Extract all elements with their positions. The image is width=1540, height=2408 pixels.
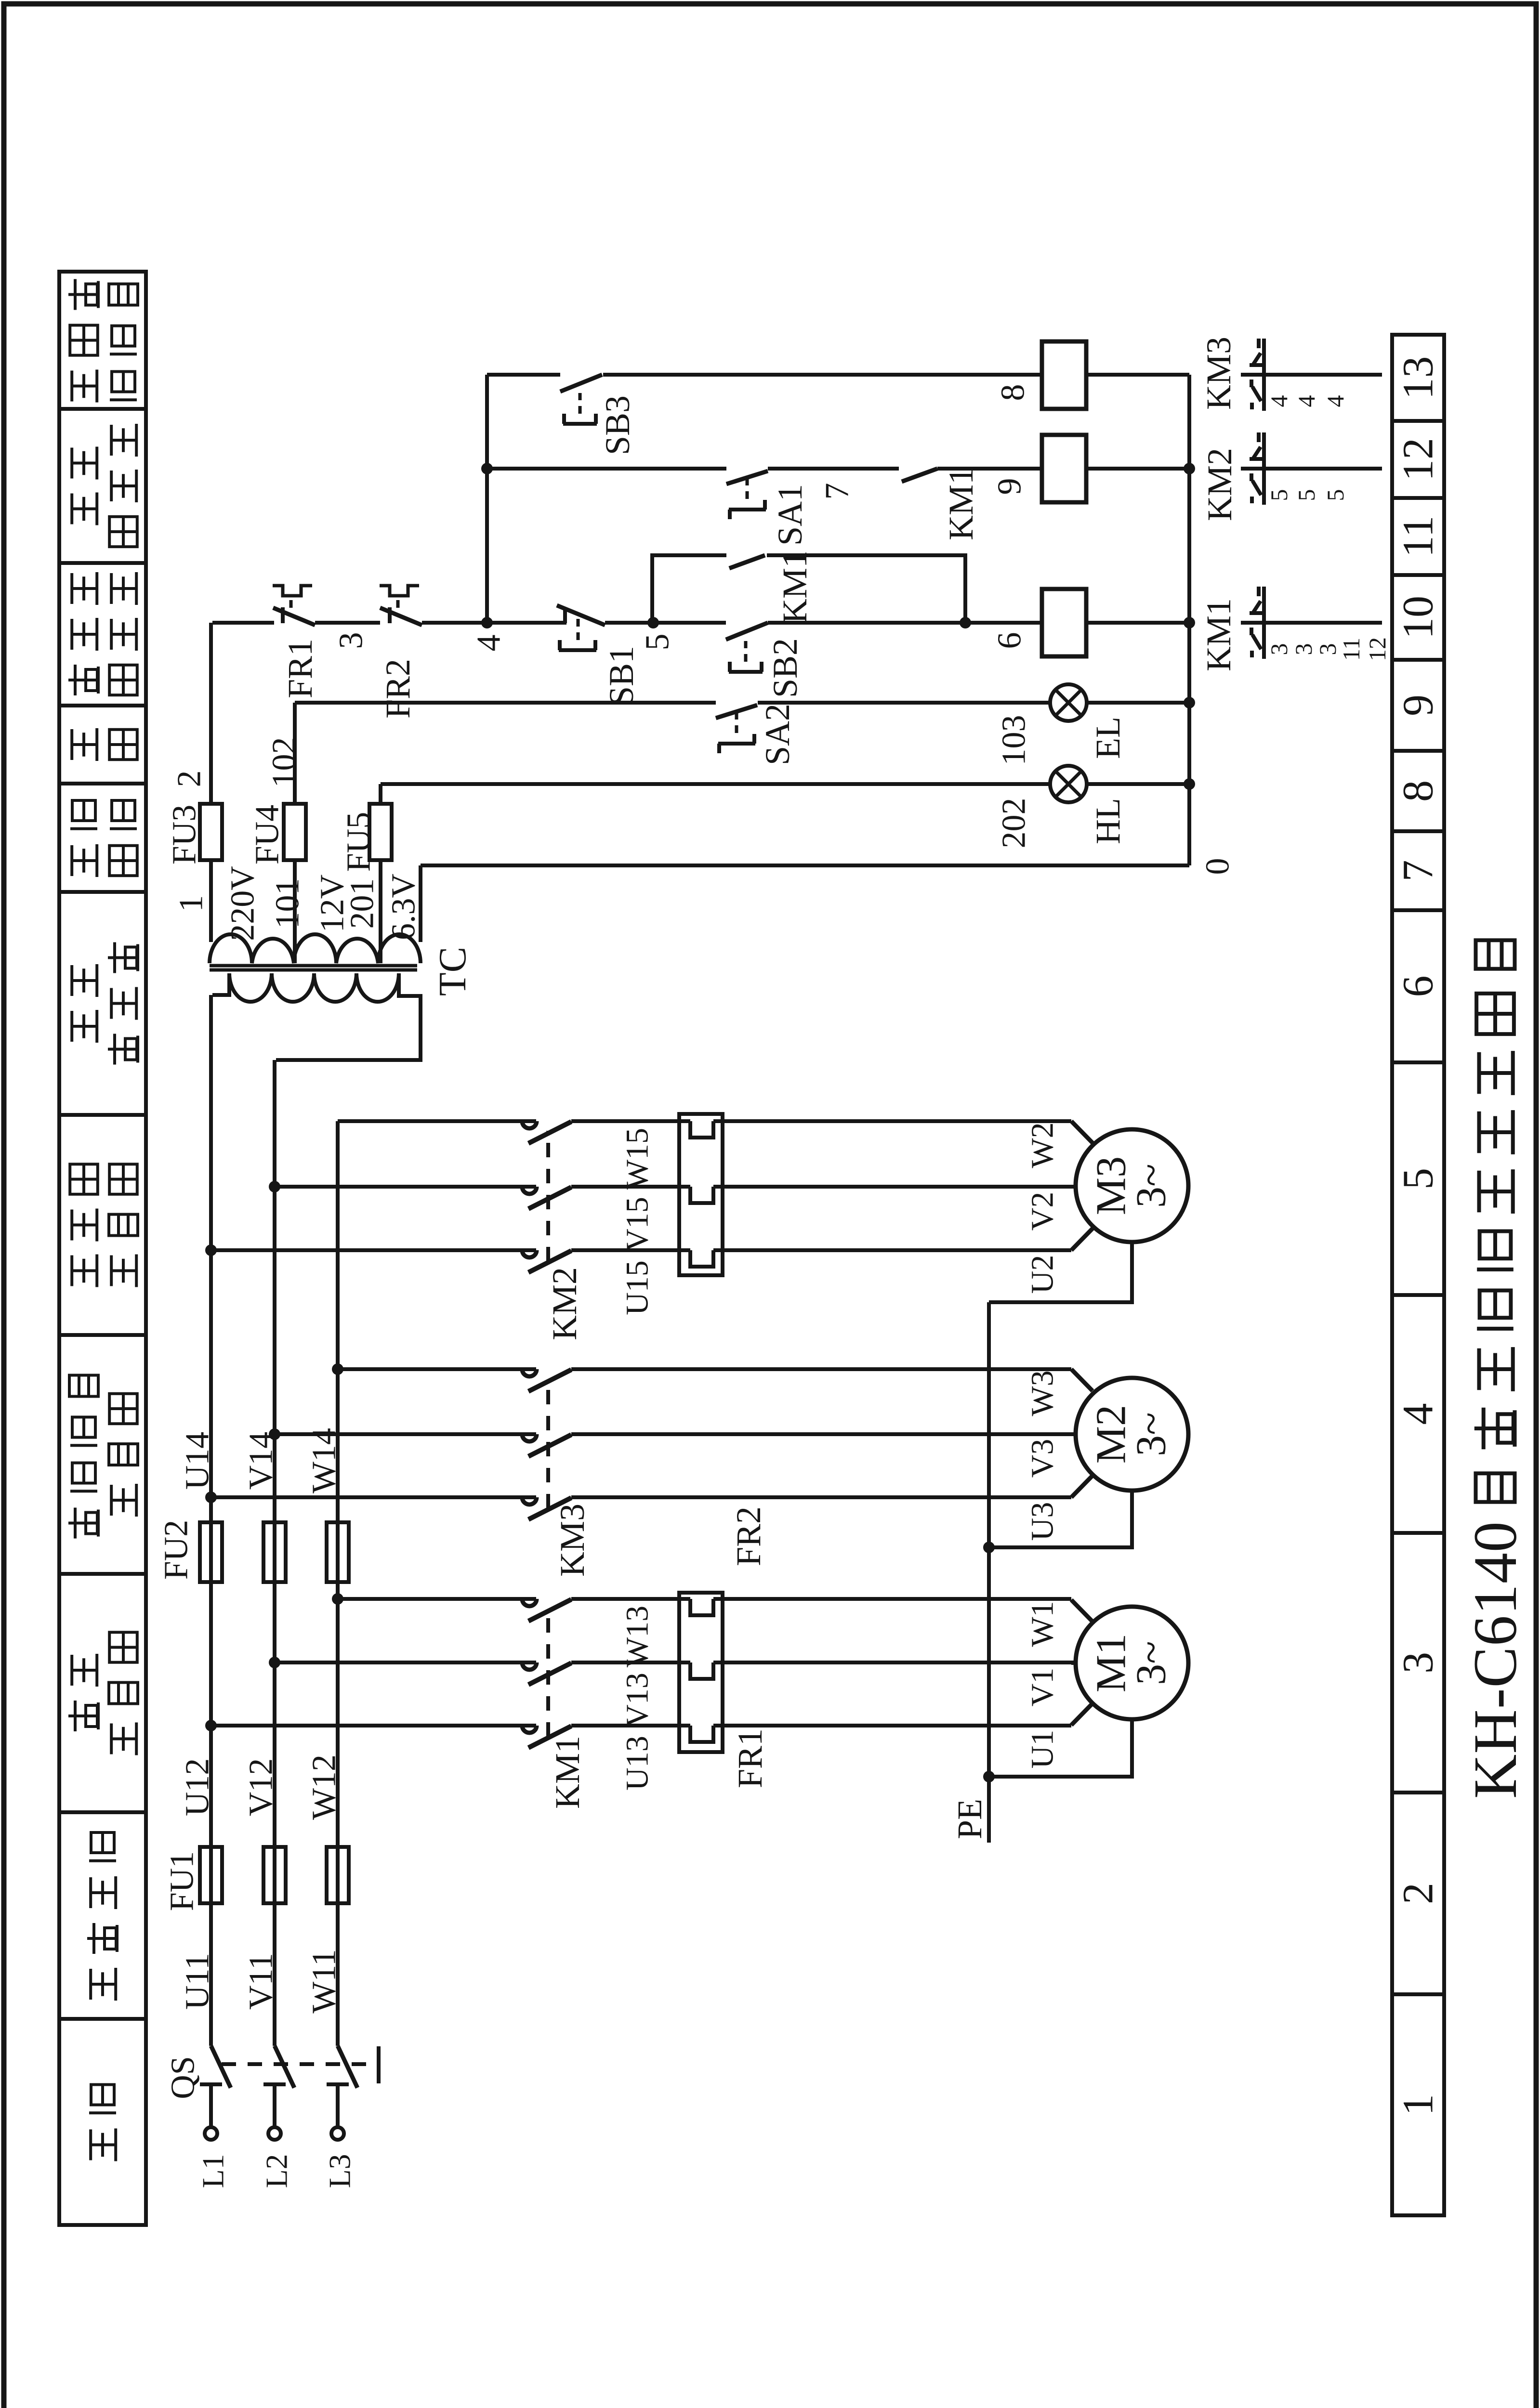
svg-text:U1: U1	[1025, 1730, 1060, 1769]
svg-text:0: 0	[1199, 858, 1237, 875]
svg-text:KM1: KM1	[548, 1736, 587, 1809]
svg-text:EL: EL	[1089, 717, 1127, 759]
svg-text:FU4: FU4	[249, 805, 286, 864]
svg-text:KM3: KM3	[1199, 337, 1238, 410]
svg-text:SA2: SA2	[758, 704, 797, 765]
svg-text:4: 4	[1395, 1403, 1442, 1425]
svg-text:PE: PE	[950, 1799, 989, 1839]
svg-text:U14: U14	[179, 1432, 216, 1490]
svg-text:SB2: SB2	[766, 638, 804, 698]
svg-text:V1: V1	[1025, 1668, 1060, 1707]
svg-text:KM1: KM1	[942, 467, 980, 540]
svg-text:U12: U12	[179, 1758, 216, 1817]
svg-text:SB3: SB3	[598, 395, 637, 455]
svg-text:KM1: KM1	[1199, 598, 1238, 671]
svg-text:1: 1	[173, 895, 210, 912]
svg-text:5: 5	[1395, 1168, 1442, 1190]
svg-text:TC: TC	[432, 947, 474, 996]
svg-text:V11: V11	[243, 1953, 280, 2010]
svg-text:102: 102	[266, 737, 303, 788]
svg-text:W14: W14	[306, 1428, 343, 1493]
svg-text:201: 201	[344, 878, 381, 929]
svg-text:FU1: FU1	[164, 1851, 201, 1911]
svg-text:3: 3	[1314, 643, 1341, 655]
svg-text:W2: W2	[1025, 1122, 1060, 1168]
svg-text:V2: V2	[1025, 1192, 1060, 1231]
svg-text:V3: V3	[1025, 1439, 1060, 1478]
svg-text:3~: 3~	[1128, 1164, 1175, 1208]
svg-text:W12: W12	[306, 1754, 343, 1820]
svg-text:3: 3	[1290, 643, 1317, 655]
svg-text:FR2: FR2	[729, 1506, 768, 1566]
svg-text:W13: W13	[620, 1606, 655, 1667]
svg-text:2: 2	[171, 771, 208, 787]
svg-text:KM2: KM2	[1200, 448, 1239, 521]
svg-text:V13: V13	[620, 1673, 655, 1727]
svg-text:FU2: FU2	[158, 1520, 195, 1580]
svg-text:1: 1	[1395, 2094, 1442, 2116]
svg-text:3: 3	[1265, 643, 1292, 655]
svg-text:FU5: FU5	[341, 812, 378, 872]
svg-text:5: 5	[1322, 489, 1349, 501]
svg-text:4: 4	[1265, 395, 1292, 407]
svg-text:U3: U3	[1025, 1502, 1060, 1541]
svg-text:U13: U13	[620, 1736, 655, 1791]
svg-text:SA1: SA1	[771, 484, 809, 546]
svg-text:HL: HL	[1089, 798, 1127, 844]
svg-text:9: 9	[1395, 694, 1442, 716]
svg-text:U15: U15	[620, 1260, 655, 1315]
svg-text:2: 2	[1395, 1883, 1442, 1904]
svg-text:FU3: FU3	[166, 805, 203, 864]
svg-text:W1: W1	[1025, 1601, 1060, 1647]
svg-text:KM3: KM3	[553, 1504, 592, 1577]
svg-text:3: 3	[1395, 1652, 1442, 1674]
svg-text:FR2: FR2	[379, 659, 417, 719]
svg-text:4: 4	[1293, 395, 1320, 407]
svg-text:L1: L1	[196, 2154, 230, 2188]
svg-text:12: 12	[1395, 438, 1442, 481]
svg-text:12: 12	[1364, 637, 1391, 661]
svg-text:202: 202	[996, 798, 1033, 849]
svg-text:101: 101	[269, 878, 306, 929]
svg-text:QS: QS	[165, 2056, 202, 2099]
svg-text:8: 8	[1395, 780, 1442, 802]
svg-text:W15: W15	[620, 1128, 655, 1190]
svg-text:FR1: FR1	[281, 639, 319, 698]
svg-text:7: 7	[819, 483, 856, 500]
svg-text:11: 11	[1395, 516, 1442, 558]
svg-text:13: 13	[1395, 356, 1442, 400]
svg-text:5: 5	[639, 634, 676, 651]
svg-text:103: 103	[996, 715, 1033, 766]
svg-text:V14: V14	[243, 1432, 280, 1490]
svg-text:3~: 3~	[1128, 1641, 1175, 1685]
svg-text:7: 7	[1395, 860, 1442, 882]
svg-text:6: 6	[1395, 976, 1442, 997]
svg-text:8: 8	[995, 384, 1032, 401]
svg-text:9: 9	[991, 478, 1028, 495]
svg-text:V15: V15	[620, 1197, 655, 1252]
svg-text:FR1: FR1	[731, 1728, 769, 1788]
svg-text:W11: W11	[306, 1949, 343, 2013]
svg-text:KM2: KM2	[545, 1267, 584, 1340]
svg-text:3: 3	[333, 632, 370, 649]
svg-text:11: 11	[1338, 638, 1365, 661]
svg-text:4: 4	[471, 635, 508, 652]
svg-text:5: 5	[1265, 489, 1292, 501]
svg-text:KM1: KM1	[776, 550, 814, 624]
svg-text:SB1: SB1	[602, 646, 641, 706]
svg-text:220V: 220V	[224, 866, 262, 941]
svg-text:KH-C6140: KH-C6140	[1461, 1521, 1529, 1799]
svg-text:4: 4	[1322, 395, 1349, 407]
svg-text:U11: U11	[179, 1953, 216, 2010]
svg-text:6.3V: 6.3V	[385, 874, 422, 940]
svg-text:U2: U2	[1025, 1255, 1060, 1294]
svg-text:6: 6	[991, 632, 1028, 649]
svg-text:10: 10	[1395, 596, 1442, 639]
svg-text:W3: W3	[1025, 1370, 1060, 1416]
svg-text:V12: V12	[243, 1758, 280, 1817]
svg-text:3~: 3~	[1128, 1412, 1175, 1456]
svg-text:5: 5	[1293, 489, 1320, 501]
svg-text:L3: L3	[323, 2154, 357, 2188]
svg-text:L2: L2	[260, 2154, 294, 2188]
